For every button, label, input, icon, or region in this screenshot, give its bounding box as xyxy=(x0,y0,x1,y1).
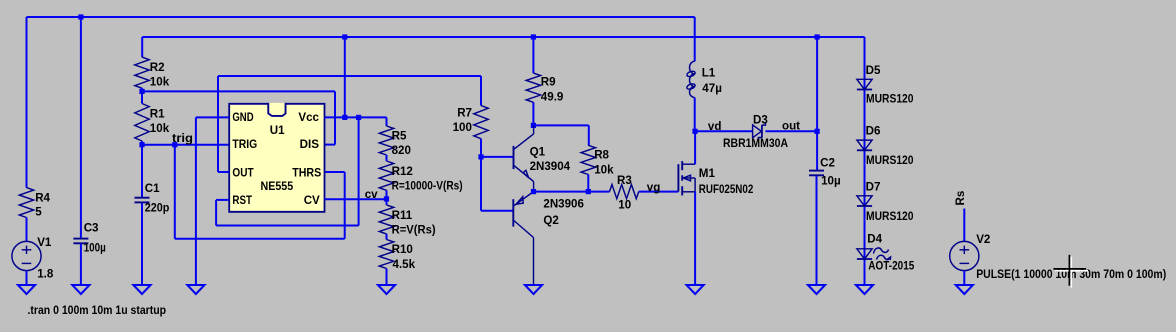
wire second rail Vcc from R2 to diode chain xyxy=(142,36,864,38)
svg-text:820: 820 xyxy=(392,144,411,157)
junction trig node xyxy=(139,142,144,147)
svg-text:Rs: Rs xyxy=(954,191,967,206)
svg-text:vg: vg xyxy=(647,181,661,194)
wire junction to R1 xyxy=(141,91,143,103)
U1 notch xyxy=(268,103,285,116)
junction Vcc drop on rail2 xyxy=(342,34,347,39)
svg-text:R3: R3 xyxy=(617,174,632,187)
wire RST pin xyxy=(216,199,229,201)
junction trig branch xyxy=(172,142,177,147)
svg-text:U1: U1 xyxy=(270,124,285,137)
svg-text:100µ: 100µ xyxy=(84,242,106,255)
resistor R1 xyxy=(135,104,149,142)
wire OUT pin xyxy=(218,171,229,173)
wire V1 to ground xyxy=(26,271,28,285)
ground R10 xyxy=(378,285,395,294)
svg-text:MURS120: MURS120 xyxy=(866,93,914,106)
capacitor C3 xyxy=(73,238,88,240)
wire to Q2 base xyxy=(481,210,513,212)
svg-text:Q2: Q2 xyxy=(543,214,558,227)
junction Vcc RST xyxy=(356,115,361,120)
wire GND net down xyxy=(195,117,197,285)
wire out node to C2 xyxy=(816,131,818,170)
svg-text:10k: 10k xyxy=(150,122,170,135)
svg-text:R11: R11 xyxy=(392,209,413,222)
svg-text:DIS: DIS xyxy=(300,138,320,151)
resistor R3 xyxy=(610,185,639,199)
svg-text:Vcc: Vcc xyxy=(298,111,319,124)
svg-text:49.9: 49.9 xyxy=(541,90,564,103)
junction C3 top on rail xyxy=(78,14,83,19)
wire TRIG pin xyxy=(142,144,229,146)
wire rail2 corner down diode chain xyxy=(864,37,866,285)
svg-text:.tran 0 100m 10m 1u startup: .tran 0 100m 10m 1u startup xyxy=(28,304,167,317)
wire THRS pin xyxy=(325,171,345,173)
resistor R2 xyxy=(135,57,149,88)
wire R8 top lead xyxy=(588,125,590,145)
svg-text:out: out xyxy=(782,119,800,132)
svg-text:trig: trig xyxy=(172,132,193,145)
svg-text:R10: R10 xyxy=(392,243,413,256)
resistor R7 xyxy=(474,106,488,139)
wire C2 to ground xyxy=(816,176,818,285)
wire trig to C1 xyxy=(141,145,143,198)
junction R8 bottom xyxy=(586,189,591,194)
wire CV pin xyxy=(325,198,387,200)
svg-text:RST: RST xyxy=(232,194,252,207)
svg-text:Q1: Q1 xyxy=(530,145,546,158)
svg-text:GND: GND xyxy=(232,111,253,124)
svg-text:M1: M1 xyxy=(699,167,716,180)
wire R5 to R12 xyxy=(386,155,388,161)
junction R9 drop on rail2 xyxy=(531,34,536,39)
svg-text:OUT: OUT xyxy=(232,167,253,180)
svg-text:D5: D5 xyxy=(866,64,881,77)
svg-text:10k: 10k xyxy=(594,163,614,176)
ground M1 xyxy=(687,285,704,294)
ground V2 xyxy=(956,285,973,294)
ground C1 xyxy=(133,285,150,294)
wire Vcc pin to R5 xyxy=(325,116,387,118)
resistor R4 xyxy=(19,188,33,218)
resistor R11 xyxy=(379,205,393,234)
resistor R10 xyxy=(379,240,393,269)
wire R2 to junction xyxy=(141,88,143,91)
wire rail2 down to Vcc xyxy=(344,37,346,117)
svg-text:cv: cv xyxy=(365,188,378,201)
wire rail2 to R2 xyxy=(141,37,143,57)
svg-text:10µ: 10µ xyxy=(821,175,841,188)
wire DIS to 555 xyxy=(325,144,336,146)
diode D3 RBR1MM30A schottky xyxy=(753,123,766,140)
wire OUT top across xyxy=(218,75,481,77)
svg-text:220p: 220p xyxy=(145,201,170,214)
junction vd node xyxy=(692,129,697,134)
wire DIS vertical xyxy=(334,91,336,144)
svg-text:D4: D4 xyxy=(867,232,882,245)
svg-text:MURS120: MURS120 xyxy=(866,154,914,167)
wire R11 to R10 xyxy=(386,234,388,240)
diode D6 xyxy=(857,140,872,150)
wire base node down xyxy=(480,157,482,211)
svg-text:D3: D3 xyxy=(753,113,768,126)
transistor Q1 2N3904 xyxy=(514,125,534,191)
svg-text:RUF025N02: RUF025N02 xyxy=(699,183,754,196)
junction Vcc rail drop xyxy=(342,115,347,120)
resistor R12 xyxy=(379,161,393,190)
junction out node xyxy=(815,129,820,134)
svg-text:R=V(Rs): R=V(Rs) xyxy=(392,223,436,236)
svg-text:D6: D6 xyxy=(866,124,881,137)
svg-text:AOT-2015: AOT-2015 xyxy=(868,260,914,273)
svg-text:10: 10 xyxy=(618,198,631,211)
wire D3 to out xyxy=(765,130,817,132)
ground Q2 xyxy=(525,285,542,294)
diode D4 AOT-2015 xyxy=(857,249,872,259)
svg-text:47µ: 47µ xyxy=(702,82,722,95)
svg-text:R8: R8 xyxy=(594,149,609,162)
ground diode chain xyxy=(856,285,873,294)
transistor M1 RUF025N02 xyxy=(678,161,695,195)
wire emitters to R3 xyxy=(534,191,610,193)
svg-text:V2: V2 xyxy=(976,233,990,246)
wire trig up to THRS xyxy=(344,172,346,239)
ground V1 xyxy=(18,285,35,294)
junction Q1 collector node xyxy=(531,123,536,128)
D4 squiggle mark xyxy=(874,248,890,260)
svg-text:R7: R7 xyxy=(457,107,472,120)
svg-text:R9: R9 xyxy=(541,76,556,89)
junction C2/out drop on rail2 xyxy=(815,34,820,39)
svg-text:RBR1MM30A: RBR1MM30A xyxy=(723,137,789,150)
capacitor C2 xyxy=(809,170,824,172)
svg-text:D7: D7 xyxy=(866,181,881,194)
voltage source V2 xyxy=(950,241,979,270)
wire RST up to Vcc xyxy=(358,117,360,225)
wire cv node to R11 xyxy=(386,199,388,205)
wire GND pin xyxy=(196,116,229,118)
wire R3 to gate vg xyxy=(639,191,679,193)
wire trig down xyxy=(174,145,176,239)
svg-text:5: 5 xyxy=(35,206,42,219)
op-amp U1 NE555 body xyxy=(229,104,324,212)
wire DIS node right xyxy=(142,90,335,92)
svg-text:1.8: 1.8 xyxy=(37,267,54,280)
resistor R5 xyxy=(379,126,393,155)
svg-text:C1: C1 xyxy=(145,182,160,195)
transistor Q2 2N3906 xyxy=(513,192,533,285)
wire Vcc corner to R5 xyxy=(386,117,388,126)
svg-text:CV: CV xyxy=(304,194,320,207)
wire C3 to ground xyxy=(80,244,82,285)
ground C2 xyxy=(808,285,825,294)
wire Q1 base xyxy=(481,156,514,158)
wire OUT up xyxy=(217,76,219,172)
svg-text:NE555: NE555 xyxy=(261,180,294,193)
junction R2/R1 DIS node xyxy=(139,89,144,94)
wire RST across xyxy=(216,225,359,227)
svg-text:V1: V1 xyxy=(37,236,52,249)
capacitor C1 xyxy=(135,197,150,199)
svg-text:R5: R5 xyxy=(392,129,407,142)
junction emitters node xyxy=(531,189,536,194)
svg-text:THRS: THRS xyxy=(292,167,321,180)
wire top rail corner down to L1 xyxy=(694,17,696,61)
svg-text:C3: C3 xyxy=(84,221,99,234)
wire M1 source down to ground xyxy=(694,192,696,285)
wire R1 to trig node xyxy=(141,141,143,145)
wire OUT down to R7 xyxy=(480,76,482,106)
svg-text:2N3904: 2N3904 xyxy=(530,160,571,173)
wire rail2 down to out node xyxy=(816,37,818,131)
diode D7 xyxy=(857,196,872,206)
svg-text:4.5k: 4.5k xyxy=(393,258,416,271)
wire R9 to collector node xyxy=(532,102,534,125)
wire L1 to vd node xyxy=(694,98,696,132)
svg-text:R12: R12 xyxy=(392,165,413,178)
svg-text:R4: R4 xyxy=(35,192,50,205)
resistor R8 xyxy=(581,145,595,174)
svg-text:TRIG: TRIG xyxy=(232,138,257,151)
ground C3 xyxy=(72,285,89,294)
wire collector node to R8 xyxy=(533,124,588,126)
svg-text:R2: R2 xyxy=(150,61,165,74)
svg-text:R=10000-V(Rs): R=10000-V(Rs) xyxy=(392,179,463,192)
junction cv node xyxy=(384,196,389,201)
svg-text:2N3906: 2N3906 xyxy=(543,198,584,211)
wire V2 to ground xyxy=(963,271,965,285)
wire C1 to ground xyxy=(141,203,143,285)
inductor L1 xyxy=(686,61,696,97)
wire R10 to ground xyxy=(386,269,388,286)
voltage source V1 xyxy=(12,241,41,270)
wire R4 to V1 xyxy=(26,218,28,242)
resistor R9 xyxy=(526,73,540,102)
svg-text:100: 100 xyxy=(453,121,472,134)
wire C3 top lead xyxy=(80,17,82,238)
ground U1 GND xyxy=(187,285,204,294)
wire vd to D3 xyxy=(695,130,752,132)
junction Q1 base node xyxy=(478,154,483,159)
wire V2 top stub xyxy=(963,209,965,242)
svg-text:C2: C2 xyxy=(820,156,835,169)
svg-text:R1: R1 xyxy=(150,108,165,121)
diode D5 xyxy=(857,79,872,89)
wire R7 to Q1 base node xyxy=(480,139,482,157)
mouse crosshair cursor xyxy=(1053,255,1088,288)
svg-text:L1: L1 xyxy=(702,66,716,79)
wire R8 bottom lead xyxy=(587,175,589,192)
wire R12 to cv node xyxy=(386,190,388,199)
svg-text:MURS120: MURS120 xyxy=(866,210,914,223)
wire V1 top lead xyxy=(26,17,28,188)
wire RST down xyxy=(215,200,217,226)
svg-text:10k: 10k xyxy=(150,76,170,89)
wire rail2 to R9 xyxy=(532,37,534,73)
wire M1 drain up xyxy=(694,131,696,164)
wire top rail V+ from V1 to L1 xyxy=(27,16,695,18)
wire trig bottom across xyxy=(175,238,345,240)
